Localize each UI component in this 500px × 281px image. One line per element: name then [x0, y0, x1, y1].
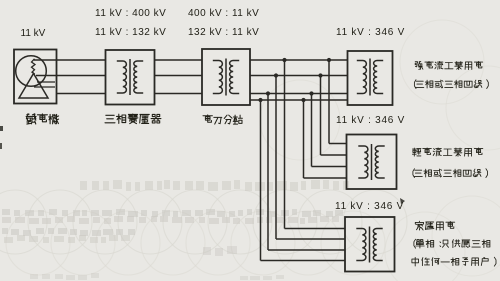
label: household power: [415, 221, 454, 230]
wire: generator to transformer phase lines: [34, 60, 106, 94]
label: heavy-current industrial power: [415, 61, 483, 69]
label: three-phase or three-phase four-wire (middle): [413, 169, 488, 178]
heavy-industry transformer T3: [348, 51, 393, 105]
label: ratio 11kV:346V top: [336, 28, 405, 38]
label: generator name: [26, 114, 59, 124]
label: three-phase transformer name: [105, 114, 161, 124]
label: ratio 400kV:11kV: [188, 9, 259, 19]
label: ratio 11kV:346V bottom: [335, 202, 404, 212]
substation transformer T2: [202, 49, 250, 105]
light-industry transformer T4: [347, 135, 397, 190]
label: ratio 132kV:11kV: [188, 28, 259, 38]
label: single phase note line 2: [412, 257, 496, 266]
label: ratio 11kV:346V middle: [336, 116, 405, 126]
wire: substation output 4-wire bus: [250, 60, 348, 100]
wire: taps to light-industry transformer: [304, 60, 347, 178]
junction dots on bus: [258, 58, 331, 102]
label: power substation name: [203, 115, 242, 124]
label: ratio 11kV:132kV: [95, 28, 166, 38]
household transformer T5: [345, 217, 395, 272]
label: light-current industrial power: [412, 148, 482, 156]
generator G1 (11 kV): [14, 50, 57, 104]
label: ratio 11kV:400kV: [95, 9, 166, 19]
label: three-phase or three-phase four-wire (top): [414, 80, 488, 89]
label: single phase note line 1: [414, 239, 490, 248]
wire: taps to household transformer: [261, 60, 346, 261]
label: 11 kV generator voltage: [21, 29, 46, 39]
wire: transformer to substation phase lines: [155, 60, 203, 94]
three-phase step-up transformer T1: [106, 50, 155, 105]
